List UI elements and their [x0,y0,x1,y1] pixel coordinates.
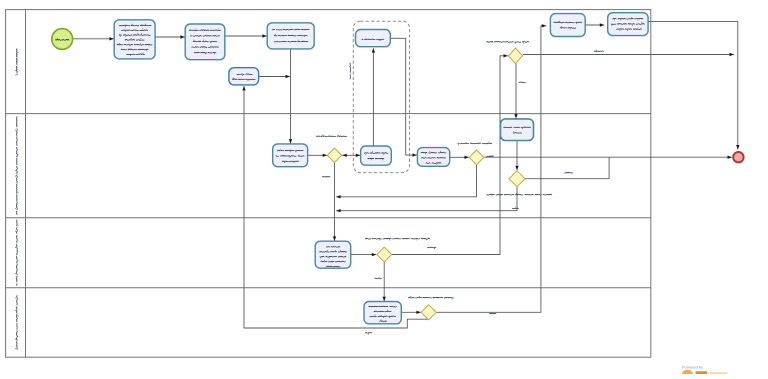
label: خیر (experts gateway) [565,171,573,174]
task: file evaluation by AFTA strategic management center [364,302,401,324]
label: آیا پرونده نقصی دارد؟ [317,135,347,137]
lane label: ITO technical evaluation [15,220,18,286]
gateway: is the file approved? [421,305,436,320]
group label: دو مرتبه [349,63,352,79]
gateway: are introduced experts approved? [509,171,525,187]
wire: start -> task1 [74,37,114,40]
wire: secondary gateway no -> merge left [336,165,476,199]
label: بله (lane4 gateway) [490,312,497,314]
wire: applicant visit -> end event (right & down) [648,21,739,149]
wire: lane4 gateway yes -> upload commitment (up) [436,24,546,312]
label: بله (experts gateway) [512,207,518,209]
wire: experts gateway no -> up merge [525,157,609,179]
wire: experts-approved gateway yes -> merge left [336,187,517,213]
wire: secondary gateway yes -> end event (long) [484,156,732,159]
label: آیا کارشناسان در آزمون قبول شدند؟ [365,238,429,240]
task: click enter evaluation & licensing system [185,24,225,60]
wire: lane4 gateway no -> fix-defect task (long return) [242,86,428,328]
wire: fix-defect task merge into down flow [259,75,290,78]
task: secondary evaluation by organization [417,148,449,167]
task: send defects to applicant [361,146,392,165]
start event (شروع) [52,29,73,50]
label: آیا پرونده مورد تایید است؟ [409,296,454,299]
task: upload commitment letter in system [550,14,585,37]
task: enter national smart-government portal my.gov.ir / register mojavez.ir [114,20,155,59]
label: بله (gateway2) [487,155,494,158]
wire: change-experts gateway no -> right merge [523,53,734,56]
task: applicant visit with documents to receive license [608,13,648,36]
wire: initial evaluation -> gateway1 [308,154,328,157]
wire: task3 -> initial evaluation (down across lane) [289,49,292,144]
task: defect fixing by applicant [229,68,259,85]
label: آیا کارشناسان معرفی شده تایید هستند؟ [487,193,552,196]
label: بله (exam gateway) [375,277,382,280]
watermark: bizagi logo (cut off) [681,370,727,379]
label: بله (lane1 gateway) [519,81,526,84]
svg-text:Powered by: Powered by [682,365,703,370]
label: خیر (lane1 gateway) [594,50,603,52]
label: خیر (exam gateway) [427,247,436,249]
wire: task2 -> task3 [225,34,267,37]
wire: send-defects -> fix defects (up) [372,48,375,146]
task: introduce new experts [501,119,534,141]
wire: secondary evaluation -> secondary gateway [450,156,469,159]
wire: lane4 evaluation -> lane4 gateway [401,311,421,314]
task: initial evaluation by organization [273,144,308,167]
wire: exam yes -> lane4 evaluation (down) [383,262,386,301]
wire: task1 -> task2 [155,35,185,38]
label: خیر (gateway1) [322,176,330,179]
lane separator 1 [6,113,651,115]
wire: exam gateway no -> change-experts gateway (up) [391,54,508,254]
label: آیا پرونده نقص دارد؟ [458,142,492,145]
lane label: AFTA strategic management center [15,296,18,350]
task: upload required documents within 24h [267,23,314,49]
gateway: did experts pass the exam? [377,247,392,262]
lane separator 2 [6,217,651,219]
wire: upload commitment -> applicant visit [585,23,604,26]
watermark: Powered by [682,365,703,370]
lane label: applicant (متقاضی) [15,49,18,76]
end event [733,152,743,162]
task: fix defects (رفع نواقص) [356,30,391,47]
lane label: ITO security evaluation org [15,117,18,215]
wire: fix defects -> secondary evaluation [390,38,417,157]
wire: gateway1 no -> expert evaluation task (down) [333,162,336,241]
task: evaluate introduced experts via written exam & interview [315,241,351,268]
wire: introduce-new-experts -> experts gateway [515,141,518,171]
pool border [6,10,651,358]
gateway: does file have defect? (2) [469,150,484,165]
gateway: want to change experts? [509,48,523,64]
lane separator 3 [6,287,651,289]
gateway: does file have defects? (1) [327,148,341,162]
wire: expert evaluation task -> exam gateway [351,253,377,256]
wire: gateway1 <-> send defects (double arrows) [342,154,360,157]
label: خیر (lane4 gateway) [365,333,372,335]
wire: change-experts gateway yes -> introduce new experts [514,63,517,118]
group (dashed, "two times" loop) [353,21,409,172]
label: آیا قصد تغییر کارشناسان را دارند؟ [487,41,529,43]
lane label column divider [25,10,27,357]
